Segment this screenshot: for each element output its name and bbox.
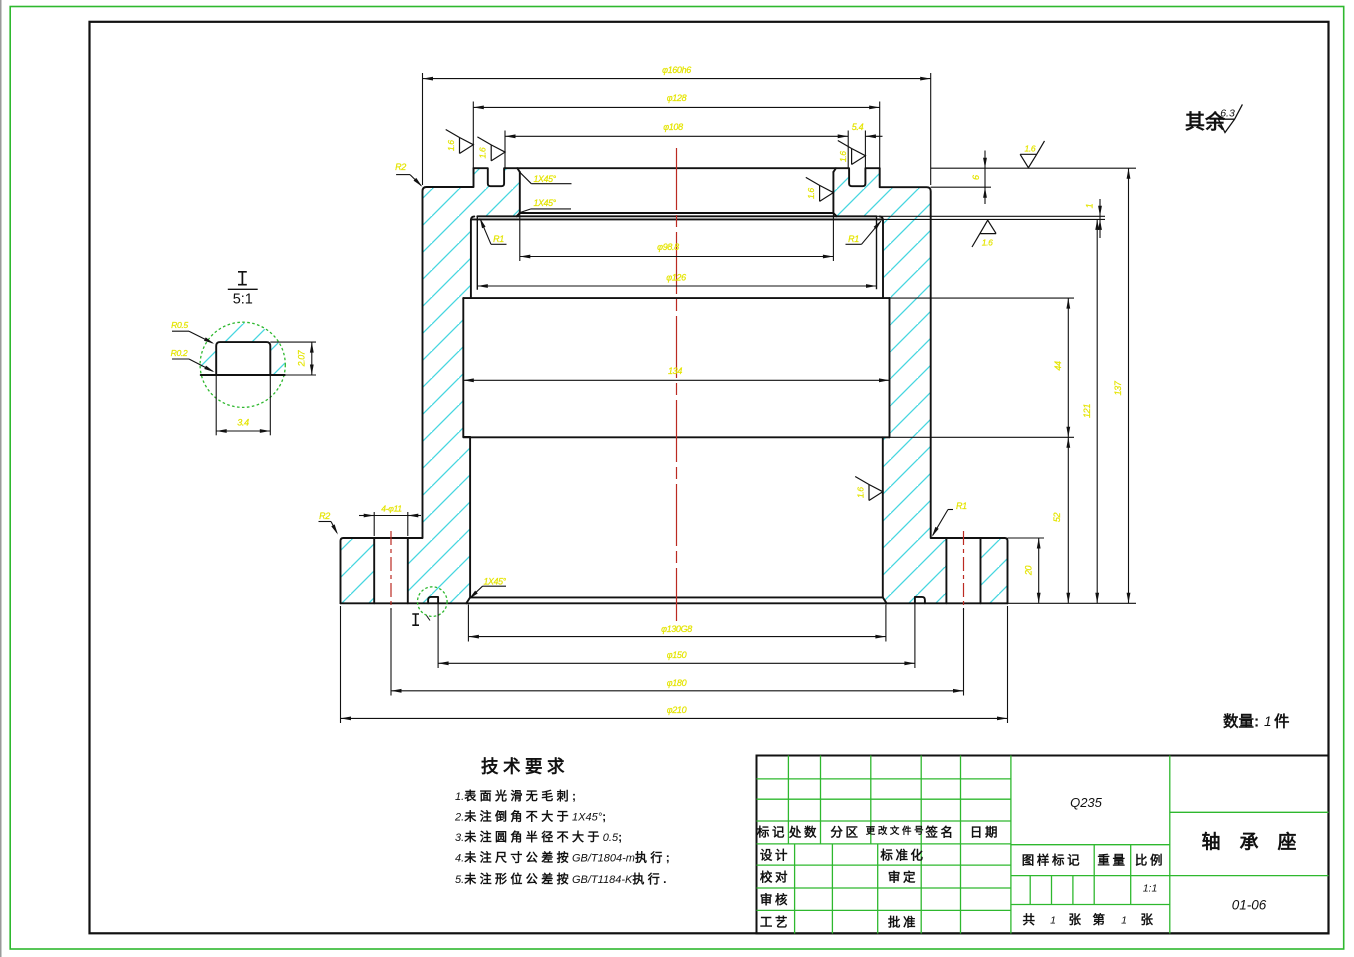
svg-text:φ160h6: φ160h6 xyxy=(662,65,691,75)
leader 1X45 step chamfer xyxy=(531,208,571,210)
dim phi210 xyxy=(341,717,1008,719)
bearing seat right wall cross-section (hatched) xyxy=(833,168,1007,603)
phi130G8 bore walls xyxy=(470,437,883,598)
svg-text:分区: 分区 xyxy=(830,825,860,840)
svg-text:技术要求: 技术要求 xyxy=(481,757,569,777)
face at y437 xyxy=(463,436,889,438)
svg-text:3.4: 3.4 xyxy=(237,418,249,428)
svg-text:1.6: 1.6 xyxy=(855,487,865,498)
svg-text:轴 承 座: 轴 承 座 xyxy=(1201,830,1296,853)
svg-text:01-06: 01-06 xyxy=(1232,898,1267,913)
ext 5.4 right xyxy=(864,131,866,169)
screen left edge artifact xyxy=(0,0,2,957)
svg-text:签名: 签名 xyxy=(924,825,955,840)
svg-text:数量:: 数量: xyxy=(1223,712,1259,731)
top bore walls (recess phi98.8) xyxy=(520,172,834,213)
ext phi210 left xyxy=(340,606,342,723)
ext 3.4 right xyxy=(269,375,271,435)
ext phi180 left xyxy=(390,608,392,696)
svg-text:φ126: φ126 xyxy=(666,273,686,283)
svg-text:2.07: 2.07 xyxy=(297,349,307,367)
detail I title xyxy=(238,272,247,285)
svg-text:φ180: φ180 xyxy=(667,678,687,688)
svg-text:工艺: 工艺 xyxy=(760,915,790,930)
svg-text:φ108: φ108 xyxy=(663,122,683,132)
svg-text:20: 20 xyxy=(1024,566,1034,577)
svg-text:2.未注倒角不大于1X45°;: 2.未注倒角不大于1X45°; xyxy=(454,809,610,824)
svg-text:重量: 重量 xyxy=(1097,853,1127,868)
svg-text:5.未注形位公差按GB/T1184-K执行.: 5.未注形位公差按GB/T1184-K执行. xyxy=(455,871,670,886)
svg-text:5:1: 5:1 xyxy=(233,292,253,308)
dim 6 xyxy=(984,151,986,205)
svg-text:R0.2: R0.2 xyxy=(171,348,188,358)
svg-text:5.4: 5.4 xyxy=(852,122,864,132)
ext flange top right xyxy=(1008,537,1045,539)
roughness 1.6 on phi128 ext xyxy=(446,130,474,154)
detail I leader xyxy=(427,616,431,621)
svg-text:R1: R1 xyxy=(848,234,859,244)
ext 2.07 bottom xyxy=(285,374,316,376)
phi134 bore walls xyxy=(463,298,889,437)
svg-text:4-φ11: 4-φ11 xyxy=(381,504,402,514)
ext phi108 left xyxy=(504,131,506,169)
title block outer border xyxy=(757,756,1329,934)
dim 5.4 xyxy=(865,135,882,137)
svg-text:φ210: φ210 xyxy=(667,705,687,715)
ext phi160 left xyxy=(422,73,424,185)
part outline: outer left wall and flange xyxy=(341,168,474,603)
detail I notch profile xyxy=(216,342,270,375)
ext phi98.8 right xyxy=(832,213,834,261)
bottom notch right xyxy=(915,597,925,603)
title block grid xyxy=(757,778,1011,780)
svg-text:1:1: 1:1 xyxy=(1143,883,1158,895)
svg-text:设计: 设计 xyxy=(760,848,790,863)
svg-text:Q235: Q235 xyxy=(1070,795,1103,810)
ext recess floor right xyxy=(931,186,991,188)
dim 20 xyxy=(1038,538,1040,603)
dim phi160h6 xyxy=(423,78,931,80)
ext phi108 right xyxy=(847,131,849,169)
leader R2 top-left xyxy=(396,174,410,176)
svg-text:日期: 日期 xyxy=(970,825,1000,840)
svg-text:φ150: φ150 xyxy=(667,650,687,660)
detail I circle xyxy=(200,322,285,407)
svg-text:张: 张 xyxy=(1068,912,1083,927)
svg-text:1X45°: 1X45° xyxy=(534,198,557,208)
svg-text:52: 52 xyxy=(1052,513,1062,523)
svg-text:件: 件 xyxy=(1274,712,1290,731)
svg-text:134: 134 xyxy=(668,366,682,376)
top face segments with grooves xyxy=(474,168,880,186)
roughness 1.6 on phi130 bore wall xyxy=(855,477,883,501)
svg-text:R0.5: R0.5 xyxy=(171,320,188,330)
svg-text:标记: 标记 xyxy=(756,825,787,840)
svg-text:R1: R1 xyxy=(493,234,504,244)
svg-text:1.表面光滑无毛刺;: 1.表面光滑无毛刺; xyxy=(455,788,579,803)
leader R0.5 xyxy=(172,330,189,332)
ext phi128 left xyxy=(472,102,474,169)
dim 4-phi11 xyxy=(359,515,374,517)
bolt hole left xyxy=(374,538,408,603)
svg-text:校对: 校对 xyxy=(760,870,790,885)
svg-text:1.6: 1.6 xyxy=(838,151,848,162)
dim 137 xyxy=(1128,168,1130,603)
ext phi210 right xyxy=(1007,606,1009,723)
ext 4-phi11 left xyxy=(373,512,375,536)
svg-text:标准化: 标准化 xyxy=(879,848,925,863)
svg-text:审核: 审核 xyxy=(760,892,790,907)
svg-text:第: 第 xyxy=(1092,912,1107,927)
leader 1X45 bottom bore chamfer xyxy=(483,585,507,587)
svg-text:R2: R2 xyxy=(395,162,406,172)
phi126 counterbore walls xyxy=(477,216,876,289)
detail I indicator circle xyxy=(418,587,448,617)
ext phi150 left / notch edge xyxy=(437,597,439,668)
svg-text:1X45°: 1X45° xyxy=(534,174,557,184)
dim phi126 xyxy=(477,285,876,287)
dim phi150 xyxy=(438,662,915,664)
svg-text:张: 张 xyxy=(1140,912,1155,927)
main centerline xyxy=(676,148,678,621)
top bore chamfers xyxy=(517,168,836,172)
dim 44 and 52 shared line xyxy=(1067,298,1069,603)
svg-text:R2: R2 xyxy=(319,511,330,521)
bolt hole right xyxy=(946,538,980,603)
svg-text:1.6: 1.6 xyxy=(982,238,993,248)
left bolt hole centerline xyxy=(390,531,392,610)
svg-text:1: 1 xyxy=(1264,714,1272,729)
svg-text:1X45°: 1X45° xyxy=(484,577,507,587)
ext top face right xyxy=(931,167,1136,169)
ext L3 right xyxy=(883,218,1105,220)
dim phi180 xyxy=(391,690,964,692)
phi129 relief walls xyxy=(471,220,883,298)
svg-text:φ130G8: φ130G8 xyxy=(661,624,692,634)
svg-text:φ98.8: φ98.8 xyxy=(657,242,679,252)
svg-text:6.3: 6.3 xyxy=(1220,108,1235,120)
bearing seat left wall cross-section (hatched) xyxy=(341,168,520,603)
ext phi128 right xyxy=(879,102,881,169)
ext 4-phi11 right xyxy=(407,512,409,536)
roughness 1.6 on top face ext xyxy=(1020,141,1044,168)
leader R0.2 xyxy=(172,358,189,360)
dim 134 xyxy=(463,379,889,381)
ext phi150 right / notch edge xyxy=(914,597,916,668)
detail I base face xyxy=(201,374,285,376)
ext bottom face right xyxy=(1008,602,1137,604)
part outline: outer right wall and flange xyxy=(880,168,1008,603)
svg-text:共: 共 xyxy=(1022,912,1037,927)
bottom notch left (detail I) xyxy=(428,597,438,603)
roughness 1.6 on 5.4 ext xyxy=(838,141,866,165)
dim 2.07 xyxy=(311,342,313,375)
svg-text:1.6: 1.6 xyxy=(446,140,456,151)
svg-text:1: 1 xyxy=(1085,203,1095,208)
svg-text:44: 44 xyxy=(1053,361,1063,371)
roughness 1.6 on phi98.8 wall xyxy=(806,177,834,201)
ext phi130G8 left xyxy=(467,605,469,642)
leader R1 top-left (counterbore) xyxy=(491,243,507,245)
leader R2 bottom-left xyxy=(319,521,332,523)
roughness 1.6 under step ext xyxy=(972,220,996,247)
ext L2 right xyxy=(877,215,1106,217)
bottom face xyxy=(341,602,1008,604)
svg-text:比例: 比例 xyxy=(1135,853,1165,868)
svg-text:图样标记: 图样标记 xyxy=(1022,853,1082,868)
svg-text:137: 137 xyxy=(1113,380,1123,395)
svg-text:4.未注尺寸公差按GB/T1804-m执行;: 4.未注尺寸公差按GB/T1804-m执行; xyxy=(455,850,673,865)
chamfer edge line L1 xyxy=(517,213,837,216)
ext phi180 right xyxy=(963,608,965,696)
svg-text:审定: 审定 xyxy=(888,870,918,885)
dim 3.4 xyxy=(216,430,270,432)
svg-text:3.未注圆角半径不大于0.5;: 3.未注圆角半径不大于0.5; xyxy=(455,829,626,844)
svg-text:1.6: 1.6 xyxy=(478,147,488,158)
dim phi108 xyxy=(505,135,848,137)
svg-text:批准: 批准 xyxy=(888,915,918,930)
step face L3 (1mm ledge) with R1 corners xyxy=(471,216,883,220)
dim phi130G8 xyxy=(468,636,886,638)
svg-text:121: 121 xyxy=(1082,404,1092,418)
svg-text:1: 1 xyxy=(1121,915,1127,927)
ext phi98.8 left xyxy=(519,213,521,261)
right bolt hole centerline xyxy=(963,531,965,610)
leader R1 top-right (counterbore) xyxy=(846,243,862,245)
svg-text:1: 1 xyxy=(1050,915,1056,927)
ext 3.4 left xyxy=(215,375,217,435)
ext phi160 right xyxy=(930,73,932,185)
svg-text:φ128: φ128 xyxy=(667,93,687,103)
svg-text:处数: 处数 xyxy=(788,825,819,840)
dim 1 xyxy=(1099,199,1101,238)
leader R1 bottom-right flange xyxy=(948,509,953,511)
ext phi130G8 right xyxy=(885,605,887,642)
svg-text:R1: R1 xyxy=(956,501,967,511)
dim phi98.8 xyxy=(520,256,834,258)
roughness 1.6 on phi108 ext xyxy=(477,137,505,161)
svg-text:1.6: 1.6 xyxy=(1025,143,1036,153)
ext y298 right xyxy=(890,297,1075,299)
svg-text:1.6: 1.6 xyxy=(806,188,816,199)
step face L2 xyxy=(477,215,876,217)
svg-text:6: 6 xyxy=(971,175,981,180)
svg-text:更改文件号: 更改文件号 xyxy=(866,825,927,837)
dim 121 xyxy=(1096,219,1098,603)
dim phi128 xyxy=(473,106,879,108)
ext 2.07 top xyxy=(270,341,316,343)
bottom chamfer xyxy=(466,597,886,603)
shoulder face at y298 xyxy=(463,297,889,299)
leader 1X45 top bore chamfer xyxy=(531,183,571,185)
ext y437 right xyxy=(890,436,1075,438)
